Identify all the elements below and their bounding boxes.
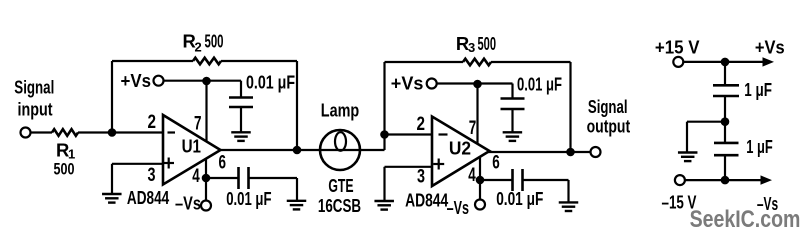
svg-text:+15 V: +15 V: [655, 36, 700, 57]
svg-text:0.01 μF: 0.01 μF: [246, 73, 295, 93]
svg-text:+Vs: +Vs: [755, 36, 785, 57]
svg-text:GTE: GTE: [328, 175, 353, 196]
svg-text:7: 7: [194, 113, 202, 134]
svg-text:SeekIC.com: SeekIC.com: [690, 206, 801, 233]
svg-text:1 μF: 1 μF: [746, 137, 773, 157]
svg-text:2: 2: [417, 114, 426, 135]
svg-text:6: 6: [492, 152, 500, 173]
svg-text:4: 4: [468, 165, 476, 186]
svg-text:1: 1: [68, 147, 75, 162]
svg-text:U1: U1: [182, 136, 201, 157]
svg-text:7: 7: [469, 118, 477, 139]
svg-text:0.01 μF: 0.01 μF: [517, 75, 562, 95]
svg-text:–Vs: –Vs: [447, 197, 469, 218]
svg-text:6: 6: [219, 152, 227, 173]
svg-text:1 μF: 1 μF: [744, 80, 772, 100]
svg-text:500: 500: [54, 161, 75, 179]
svg-text:3: 3: [468, 40, 475, 55]
svg-text:2: 2: [147, 112, 156, 133]
svg-text:Lamp: Lamp: [321, 100, 359, 121]
svg-text:input: input: [18, 99, 53, 120]
svg-text:3: 3: [148, 165, 156, 186]
svg-text:+Vs: +Vs: [121, 70, 152, 91]
svg-text:Signal: Signal: [14, 77, 54, 98]
svg-text:+Vs: +Vs: [391, 73, 424, 94]
svg-text:500: 500: [478, 34, 497, 54]
svg-text:output: output: [587, 116, 631, 137]
svg-text:AD844: AD844: [127, 187, 170, 208]
svg-text:Signal: Signal: [588, 96, 628, 117]
svg-text:U2: U2: [449, 137, 471, 158]
svg-text:16CSB: 16CSB: [318, 195, 361, 216]
svg-text:500: 500: [205, 32, 224, 52]
svg-text:2: 2: [195, 40, 202, 55]
svg-text:4: 4: [192, 166, 200, 187]
svg-text:0.01 μF: 0.01 μF: [496, 189, 543, 209]
svg-text:–Vs: –Vs: [175, 193, 201, 214]
svg-text:3: 3: [417, 166, 425, 187]
svg-text:AD844: AD844: [405, 189, 449, 210]
svg-text:0.01 μF: 0.01 μF: [226, 189, 271, 209]
